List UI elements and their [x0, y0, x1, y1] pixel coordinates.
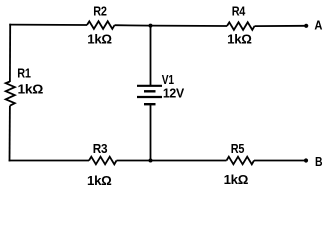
wire top-right segment [255, 25, 305, 27]
battery V1 plate short bottom [144, 103, 156, 105]
svg-text:R4: R4 [232, 4, 246, 19]
resistor R1 [6, 82, 15, 106]
wire top-left segment [9, 24, 87, 26]
svg-text:1kΩ: 1kΩ [224, 172, 249, 187]
svg-text:R1: R1 [17, 66, 31, 81]
resistor R3 [89, 157, 117, 165]
svg-text:1kΩ: 1kΩ [87, 32, 112, 47]
svg-text:R5: R5 [231, 141, 245, 156]
svg-text:12V: 12V [163, 86, 185, 101]
wire top-middle segment [115, 24, 228, 27]
svg-text:A: A [314, 17, 322, 32]
terminal dot node B [304, 158, 308, 162]
battery V1 plate short upper [144, 90, 156, 92]
wire bottom-right segment [254, 160, 305, 162]
terminal dot node A [304, 24, 308, 28]
battery V1 plate long top [137, 85, 162, 87]
wire middle vertical upper segment [150, 25, 152, 86]
resistor R2 [87, 21, 115, 29]
svg-text:1kΩ: 1kΩ [87, 173, 112, 187]
svg-text:R3: R3 [93, 141, 108, 156]
junction dot top node [149, 24, 153, 28]
wire left vertical lower segment [9, 106, 11, 162]
svg-text:B: B [315, 154, 322, 169]
wire middle vertical lower segment [150, 104, 152, 160]
wire bottom-middle segment [117, 160, 227, 162]
resistor R4 [227, 22, 255, 30]
battery V1 plate long lower [137, 96, 162, 98]
wire left vertical upper segment [9, 24, 11, 82]
svg-text:1kΩ: 1kΩ [227, 32, 252, 47]
wire bottom-left segment [9, 160, 89, 162]
resistor R5 [227, 157, 255, 165]
junction dot bottom node [149, 159, 153, 163]
svg-text:1kΩ: 1kΩ [18, 81, 44, 96]
svg-text:R2: R2 [93, 4, 107, 19]
